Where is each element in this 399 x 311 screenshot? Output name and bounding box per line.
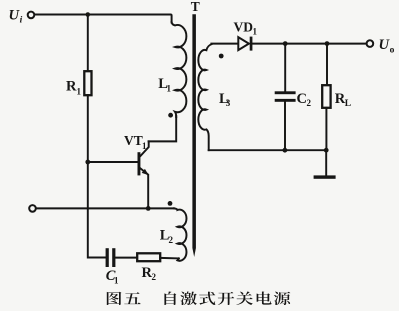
- svg-text:o: o: [390, 46, 395, 56]
- junction C2 bottom: [283, 148, 288, 153]
- phase dot L1: [168, 113, 173, 118]
- wire diode cathode to output: [252, 43, 366, 45]
- wire R1 bottom to base junction: [87, 95, 89, 162]
- capacitor C2: [284, 44, 286, 92]
- svg-text:R: R: [66, 78, 77, 94]
- svg-text:3: 3: [226, 98, 231, 108]
- resistor R1: [84, 71, 91, 95]
- diode VD1: [238, 37, 249, 50]
- resistor RL: [326, 44, 328, 86]
- svg-text:T: T: [191, 0, 200, 14]
- caption char 图: [107, 292, 122, 305]
- svg-text:1: 1: [253, 27, 258, 37]
- caption char 自: [164, 292, 176, 305]
- svg-text:1: 1: [114, 276, 119, 286]
- wire R2 to L2 bottom: [160, 257, 179, 260]
- phase dot L3: [219, 54, 224, 59]
- svg-text:i: i: [20, 15, 23, 25]
- wire emitter down: [147, 175, 149, 208]
- svg-text:1: 1: [142, 141, 147, 151]
- wire base node down to C1: [88, 162, 106, 258]
- junction base node: [85, 160, 90, 165]
- caption char 关: [236, 292, 252, 305]
- caption char 激: [180, 292, 197, 305]
- junction top of R1 branch: [86, 12, 91, 17]
- wire base lead: [88, 161, 138, 163]
- wire collector to L1 bottom: [149, 116, 177, 141]
- junction RL bottom: [324, 148, 329, 153]
- terminal input top: [28, 12, 35, 19]
- caption char 电: [257, 292, 272, 305]
- svg-text:L: L: [345, 99, 351, 109]
- wire top rail: [36, 15, 172, 23]
- inductor L3: [198, 44, 211, 150]
- wire to ground: [325, 150, 327, 175]
- terminal output: [367, 40, 374, 47]
- inductor L2: [174, 208, 186, 260]
- resistor R2: [137, 253, 160, 261]
- svg-text:2: 2: [152, 272, 157, 282]
- transistor VT1: [138, 152, 141, 175]
- svg-text:2: 2: [169, 235, 174, 245]
- terminal input bottom: [29, 205, 36, 212]
- svg-text:1: 1: [167, 84, 172, 94]
- svg-text:VD: VD: [234, 20, 254, 35]
- wire secondary bottom rail: [209, 149, 327, 151]
- junction C2 top: [283, 41, 288, 46]
- wire bottom input rail: [37, 207, 174, 209]
- wire R1 top lead: [87, 15, 89, 72]
- capacitor C1: [106, 248, 109, 267]
- ground: [314, 175, 336, 178]
- svg-text:VT: VT: [124, 133, 143, 148]
- wire diode anode: [211, 43, 238, 45]
- junction emitter node: [146, 206, 151, 211]
- phase dot L2: [168, 201, 173, 206]
- caption 图五 自激式开关电源: [107, 292, 290, 305]
- caption char 源: [274, 292, 290, 305]
- wire C1 to R2: [115, 257, 137, 259]
- svg-text:1: 1: [77, 87, 82, 97]
- caption char 式: [199, 292, 215, 305]
- inductor L1: [172, 22, 187, 117]
- caption char 开: [218, 292, 234, 305]
- junction RL top: [325, 41, 330, 46]
- caption char 五: [124, 292, 140, 304]
- transformer core: [192, 14, 196, 257]
- svg-text:2: 2: [307, 98, 312, 108]
- svg-text:C: C: [297, 91, 307, 107]
